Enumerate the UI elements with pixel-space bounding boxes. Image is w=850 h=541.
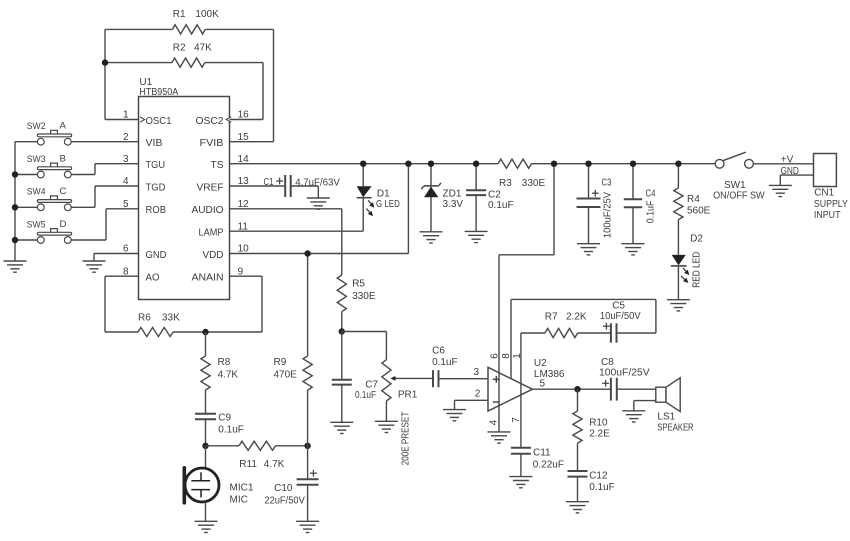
capacitor C1 xyxy=(230,175,341,198)
svg-text:R9: R9 xyxy=(274,357,287,368)
wire U2 pin1/pin7 xyxy=(511,333,523,448)
wire pin16 riser to R2 xyxy=(262,63,264,120)
svg-text:C6: C6 xyxy=(432,346,445,357)
svg-text:R5: R5 xyxy=(352,279,365,290)
svg-text:22uF/50V: 22uF/50V xyxy=(264,496,305,507)
capacitor C8 xyxy=(599,357,656,400)
capacitor C10 xyxy=(264,446,318,522)
svg-text:FVIB: FVIB xyxy=(200,138,224,149)
svg-text:GND: GND xyxy=(146,250,167,261)
svg-text:2.2K: 2.2K xyxy=(566,312,587,323)
svg-text:MIC1: MIC1 xyxy=(230,483,254,494)
wire supply to U2 pin6 xyxy=(499,164,554,368)
svg-text:0.1uF: 0.1uF xyxy=(589,482,615,493)
wire SW4 to TGD xyxy=(15,186,139,207)
pin8 label xyxy=(501,353,512,359)
svg-text:4: 4 xyxy=(489,419,500,425)
wire SW3 to TGU xyxy=(15,164,139,175)
svg-text:3.3V: 3.3V xyxy=(443,199,464,210)
node R4/TS xyxy=(675,161,681,167)
svg-text:4.7K: 4.7K xyxy=(218,370,239,381)
svg-text:LAMP: LAMP xyxy=(199,228,224,239)
svg-text:0.1uF: 0.1uF xyxy=(488,200,514,211)
wire pin8 AO loop xyxy=(105,276,139,332)
svg-text:D2: D2 xyxy=(690,234,703,245)
ground PR1 xyxy=(375,421,398,432)
ground switch bus xyxy=(4,261,27,272)
switch SW4 (C) xyxy=(27,186,72,211)
svg-text:C11: C11 xyxy=(533,448,551,459)
svg-text:AO: AO xyxy=(146,273,160,284)
svg-text:MIC: MIC xyxy=(230,495,248,506)
node ZD1/TS xyxy=(428,161,434,167)
zener diode ZD1 3.3V xyxy=(421,164,463,232)
node VDD riser/TS xyxy=(405,161,411,167)
capacitor C11 xyxy=(511,448,564,477)
IC U1 HTB950A xyxy=(123,77,249,300)
ground MIC1 xyxy=(195,521,218,532)
speaker LS1 xyxy=(634,378,694,434)
svg-text:C10: C10 xyxy=(274,483,293,494)
svg-text:SW1: SW1 xyxy=(724,180,746,191)
svg-text:R4: R4 xyxy=(687,194,700,205)
svg-text:47K: 47K xyxy=(194,42,212,53)
connector CN1 SUPPLY INPUT xyxy=(814,154,849,221)
ground C2 xyxy=(465,231,488,242)
svg-text:100K: 100K xyxy=(195,9,219,20)
wire pin16 OSC2 xyxy=(230,119,264,121)
svg-text:SW5: SW5 xyxy=(27,219,46,230)
capacitor C6 xyxy=(432,346,488,388)
svg-text:OSC2: OSC2 xyxy=(196,116,224,127)
svg-text:100uF/25V: 100uF/25V xyxy=(599,367,650,378)
svg-text:7: 7 xyxy=(511,417,522,423)
ground CN1 xyxy=(769,185,792,196)
svg-text:AUDIO: AUDIO xyxy=(192,205,224,216)
ground ZD1 xyxy=(420,232,443,243)
wire pin11 LAMP xyxy=(230,230,364,232)
resistor R9 xyxy=(274,254,313,446)
svg-text:TGU: TGU xyxy=(146,160,166,171)
svg-text:4.7uF/63V: 4.7uF/63V xyxy=(295,178,340,189)
svg-text:HTB950A: HTB950A xyxy=(139,87,178,98)
capacitor C3 xyxy=(577,164,614,244)
svg-text:OSC1: OSC1 xyxy=(146,116,172,127)
svg-text:SW4: SW4 xyxy=(27,187,46,198)
wire pin15 FVIB xyxy=(230,141,274,143)
svg-text:D: D xyxy=(60,219,67,230)
ground D2 xyxy=(667,300,690,311)
svg-text:8: 8 xyxy=(501,353,512,359)
ground C7 xyxy=(330,422,353,433)
capacitor C5 xyxy=(578,301,641,343)
svg-text:2: 2 xyxy=(475,389,481,400)
wire U2 pin3 input xyxy=(474,367,480,378)
svg-text:R2: R2 xyxy=(173,42,186,53)
node R5/C7/PR1 junction xyxy=(339,328,345,334)
svg-text:3: 3 xyxy=(474,367,480,378)
wire SW5 to ROB xyxy=(15,209,139,240)
svg-text:GND: GND xyxy=(781,166,799,177)
svg-text:200E PRESET: 200E PRESET xyxy=(400,412,411,466)
svg-text:U2: U2 xyxy=(534,358,547,369)
node C4/TS xyxy=(630,161,636,167)
svg-text:G LED: G LED xyxy=(376,199,400,210)
svg-text:R10: R10 xyxy=(589,418,608,429)
svg-text:C9: C9 xyxy=(218,413,231,424)
svg-text:PR1: PR1 xyxy=(398,390,418,401)
wire pin10 VDD xyxy=(230,164,409,254)
ground U2 pin2 xyxy=(443,410,466,421)
svg-text:SW2: SW2 xyxy=(27,121,46,132)
svg-text:330E: 330E xyxy=(522,178,546,189)
svg-text:R6: R6 xyxy=(138,313,151,324)
node junction R1/R2 left xyxy=(102,59,108,65)
resistor R7 xyxy=(521,312,587,338)
svg-text:VDD: VDD xyxy=(203,250,224,261)
node supply/TS xyxy=(551,161,557,167)
svg-text:B: B xyxy=(60,153,66,164)
svg-text:TGD: TGD xyxy=(146,182,166,193)
svg-text:10uF/50V: 10uF/50V xyxy=(600,311,641,322)
resistor R10 xyxy=(573,389,610,471)
svg-text:C12: C12 xyxy=(589,471,608,482)
op-amp U2 LM386 xyxy=(488,358,565,411)
svg-text:C2: C2 xyxy=(488,189,501,200)
resistor R11 xyxy=(206,441,308,470)
ground LS1 xyxy=(622,411,645,422)
svg-text:D1: D1 xyxy=(377,189,390,200)
switch SW2 (A) xyxy=(27,121,72,146)
wire U2 pin6/pin4 xyxy=(489,353,501,432)
node R6/R8 junction xyxy=(202,329,208,335)
svg-text:0.1uF: 0.1uF xyxy=(355,390,376,401)
LED D2 RED LED xyxy=(671,234,704,300)
ground C12 xyxy=(566,502,589,513)
switch SW3 (B) xyxy=(27,153,72,178)
capacitor C12 xyxy=(568,471,615,502)
svg-text:0.1uF: 0.1uF xyxy=(432,357,458,368)
ground C10 xyxy=(296,521,319,532)
svg-text:SW3: SW3 xyxy=(27,154,46,165)
ground C11 xyxy=(509,477,532,488)
svg-text:560E: 560E xyxy=(687,206,711,217)
resistor R3 xyxy=(498,159,545,189)
resistor R5 xyxy=(337,275,376,332)
svg-text:RED LED: RED LED xyxy=(692,252,703,288)
resistor R2 xyxy=(105,42,263,67)
svg-text:LS1: LS1 xyxy=(657,411,675,422)
svg-text:ZD1: ZD1 xyxy=(443,189,462,200)
svg-text:SPEAKER: SPEAKER xyxy=(657,423,693,434)
wire pin12 AUDIO xyxy=(230,209,342,275)
svg-text:470E: 470E xyxy=(274,370,298,381)
capacitor C2 xyxy=(466,164,513,232)
wire CN1 GND xyxy=(780,166,813,186)
ground C4 xyxy=(622,244,645,255)
svg-text:C: C xyxy=(60,186,67,197)
wire OSC1 left riser xyxy=(104,29,106,119)
svg-text:+V: +V xyxy=(781,154,794,165)
wire pin1 OSC1 xyxy=(105,119,139,121)
LED D1 G LED xyxy=(357,164,400,232)
resistor R4 xyxy=(674,164,711,255)
svg-text:R8: R8 xyxy=(218,357,231,368)
microphone MIC1 xyxy=(184,446,254,522)
svg-text:C1: C1 xyxy=(264,177,274,188)
capacitor C9 xyxy=(195,390,244,446)
svg-text:0.1uF: 0.1uF xyxy=(645,201,656,224)
ground U2 pin4 xyxy=(488,432,511,443)
svg-text:R1: R1 xyxy=(173,9,186,20)
node C9/R11/MIC junction xyxy=(202,443,208,449)
svg-text:100uF/25V: 100uF/25V xyxy=(603,192,614,239)
node C3/TS xyxy=(585,161,591,167)
feedback loop pin8 wire xyxy=(511,299,656,378)
resistor R1 xyxy=(105,9,274,34)
ground C3 xyxy=(577,244,600,255)
svg-text:A: A xyxy=(60,121,67,132)
svg-text:0.22uF: 0.22uF xyxy=(533,460,564,471)
capacitor C4 xyxy=(624,164,657,244)
svg-text:C3: C3 xyxy=(602,178,612,189)
wire TS rail xyxy=(230,163,716,165)
svg-text:1: 1 xyxy=(512,353,523,359)
wire pin9 ANAIN loop xyxy=(230,276,263,332)
svg-text:330E: 330E xyxy=(352,291,376,302)
svg-text:R3: R3 xyxy=(499,178,512,189)
svg-text:TS: TS xyxy=(211,160,224,171)
wire U2 pin2 input xyxy=(455,389,489,410)
switch SW5 (D) xyxy=(27,219,72,244)
svg-text:4.7K: 4.7K xyxy=(264,459,285,470)
node R11/R9/C10 junction xyxy=(304,443,310,449)
svg-text:6: 6 xyxy=(489,353,500,359)
node D1/TS xyxy=(360,161,366,167)
resistor R6 xyxy=(138,313,262,337)
svg-text:VIB: VIB xyxy=(146,138,163,149)
svg-text:SUPPLY: SUPPLY xyxy=(814,199,848,210)
svg-text:ROB: ROB xyxy=(146,205,167,216)
wire pin15 riser to R1 xyxy=(273,29,275,141)
capacitor C7 xyxy=(332,332,379,423)
ground C1 xyxy=(307,198,330,209)
svg-text:0.1uF: 0.1uF xyxy=(218,425,244,436)
svg-text:C4: C4 xyxy=(646,189,656,200)
wire SW2 to VIB xyxy=(15,141,139,143)
svg-text:33K: 33K xyxy=(162,313,180,324)
svg-text:5: 5 xyxy=(540,378,546,389)
wire SW1 to CN1 +V xyxy=(753,154,813,165)
svg-text:ON/OFF SW: ON/OFF SW xyxy=(713,190,765,201)
wire switch bus xyxy=(12,142,18,261)
resistor R8 xyxy=(201,332,239,390)
preset PR1 200E xyxy=(342,332,433,466)
wire pin6 GND xyxy=(94,254,139,262)
switch SW1 ON/OFF xyxy=(713,152,765,201)
svg-text:ANAIN: ANAIN xyxy=(192,273,224,284)
svg-text:CN1: CN1 xyxy=(814,188,834,199)
node output junction xyxy=(574,386,580,392)
svg-text:R7: R7 xyxy=(545,312,558,323)
svg-text:R11: R11 xyxy=(239,459,257,470)
svg-text:2.2E: 2.2E xyxy=(589,429,610,440)
svg-text:VREF: VREF xyxy=(197,182,224,193)
svg-text:INPUT: INPUT xyxy=(814,210,841,221)
ground pin6 xyxy=(83,261,106,272)
node VDD/R9 xyxy=(304,250,310,256)
wire U2 output pin5 xyxy=(532,378,611,389)
node C2/TS xyxy=(473,161,479,167)
svg-text:C5: C5 xyxy=(612,301,625,312)
